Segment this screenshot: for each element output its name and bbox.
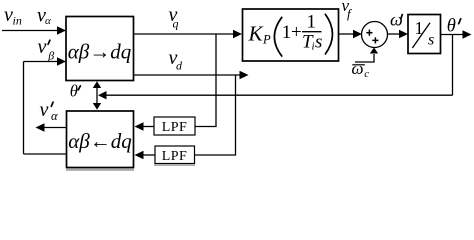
wire theta' output <box>441 34 464 36</box>
wire feedback bottom horizontal <box>24 153 67 155</box>
svg-text:α: α <box>45 15 51 27</box>
wire v_q branch to LPF1 <box>195 34 216 127</box>
wire v_in input <box>2 30 58 32</box>
svg-text:in: in <box>13 14 22 28</box>
svg-text:v: v <box>38 36 47 58</box>
svg-text:K: K <box>248 22 264 46</box>
block alpha-beta to dq (box1) <box>66 17 134 81</box>
wire v_f <box>339 33 354 35</box>
wire v'_alpha output <box>44 127 66 129</box>
svg-text:αβ←dq: αβ←dq <box>68 129 132 153</box>
wire theta' feedback vertical right <box>452 35 454 96</box>
wire theta' feedback horizontal <box>106 94 453 96</box>
svg-text:v: v <box>40 99 49 121</box>
svg-text:θ: θ <box>70 82 78 101</box>
svg-text:+: + <box>291 22 302 43</box>
block PI controller (box2) <box>243 9 339 61</box>
svg-text:αβ→dq: αβ→dq <box>68 39 132 63</box>
svg-text:LPF: LPF <box>162 120 188 135</box>
plus sign left <box>366 32 372 34</box>
wire LPF2 to box3 <box>143 154 155 156</box>
shadow under box3 <box>66 168 134 170</box>
wire v_d branch to LPF2 <box>195 75 236 155</box>
svg-text:d: d <box>176 59 183 73</box>
summing junction <box>362 22 388 48</box>
wire v_d output <box>134 74 241 76</box>
svg-text:s: s <box>315 32 322 53</box>
svg-text:1: 1 <box>307 12 317 33</box>
svg-text:θ: θ <box>447 16 456 36</box>
wire LPF1 to box3 <box>143 126 154 128</box>
svg-text:c: c <box>364 68 369 80</box>
block LPF2 <box>155 146 195 164</box>
wire v_q output <box>134 33 235 35</box>
wire omega' to integrator <box>388 33 401 35</box>
plus sign bottom <box>372 39 378 41</box>
svg-text:P: P <box>262 33 271 47</box>
shadow under LPF2 <box>154 164 195 166</box>
big parentheses <box>274 17 282 57</box>
svg-text:β: β <box>47 49 54 63</box>
block alpha-beta from dq (box3) <box>67 111 134 168</box>
svg-text:1: 1 <box>282 22 292 43</box>
block LPF1 <box>154 117 195 135</box>
svg-text:LPF: LPF <box>162 149 188 164</box>
wire feedback left vertical <box>23 62 25 155</box>
node theta' vertical double arrow <box>96 86 98 104</box>
svg-text:ω: ω <box>352 59 364 78</box>
block integrator 1/s <box>408 15 441 54</box>
svg-text:α: α <box>51 109 58 123</box>
wire v'_beta into box1 <box>24 61 59 63</box>
label omega_c with overbar <box>352 64 365 66</box>
wire omega_c input <box>355 54 374 62</box>
svg-text:s: s <box>428 31 434 48</box>
svg-text:q: q <box>173 17 179 31</box>
